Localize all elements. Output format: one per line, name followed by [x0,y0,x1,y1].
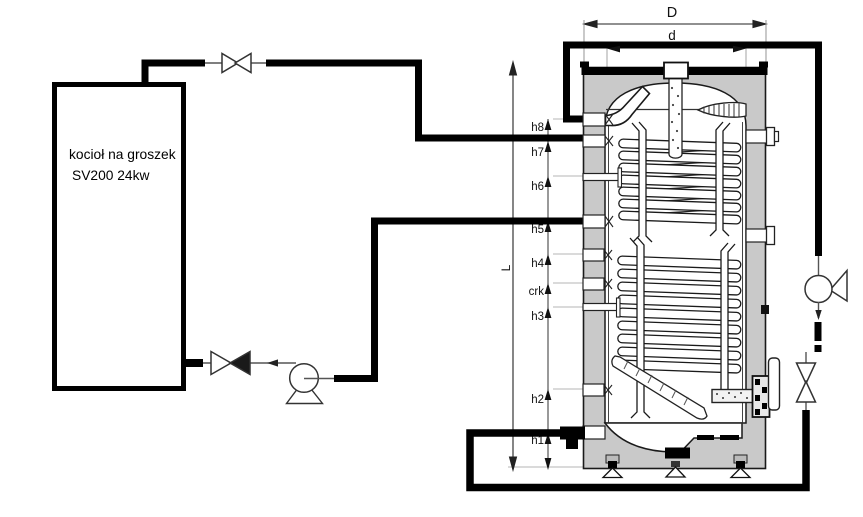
anode rod [669,78,682,158]
bottom dashes [697,435,714,440]
right wall tick [761,305,769,314]
svg-text:h4: h4 [531,258,544,270]
svg-text:h1: h1 [531,435,544,447]
extension lines for h levels [508,119,583,467]
h1 fitting tee [566,439,578,449]
pump P1 outlet line [304,378,336,380]
pipe boiler return stub [186,359,203,367]
valve V1 (open gate valve) [222,54,251,73]
h dimension up arrows [545,119,552,470]
dimension d arrows (over pipe) [607,46,746,53]
pump P2 inlet line [818,256,820,277]
h dimension chain line [547,119,549,468]
h1 black fitting [560,427,585,440]
svg-text:h6: h6 [531,181,544,193]
lower weld seam [606,422,744,424]
thermometer pocket corrugated [698,103,746,118]
svg-text:D: D [667,5,677,21]
dimension D [584,20,766,66]
flow arrow left [267,359,278,366]
valve V2 connecting line [203,362,296,364]
svg-text:L: L [499,264,513,271]
pump P2 outlet arrow [818,302,820,318]
foot right [731,455,750,478]
svg-text:SV200 24kw: SV200 24kw [72,168,150,183]
lower coil riser right [721,243,735,400]
valve V1 connecting line [205,62,266,64]
heater flange cover [769,358,780,410]
svg-text:kocioł na groszek: kocioł na groszek [69,147,176,162]
stub h4 [583,249,612,261]
lower coil [618,256,741,373]
stub h7 [583,135,613,147]
pump P1 (boiler circulation pump) [290,364,319,393]
right stub mid with flange [746,227,775,245]
pipe dashes below pump P2 [815,322,822,352]
stub h2 [583,384,612,396]
stub h1 white gap [583,426,605,439]
vessel wall inner lines [608,122,610,423]
boiler kociol na groszek [55,85,184,389]
upper coil [619,139,741,224]
pump P2 (right circulation pump) [805,271,847,303]
pipe right side down to bottom and back to tank h1 [470,410,806,488]
inner vessel body [605,83,746,423]
valve V3 stem lines [805,352,807,364]
tank corner tabs [580,62,589,68]
svg-text:h3: h3 [531,311,544,323]
stub h5 [583,215,613,228]
svg-text:h2: h2 [531,394,544,406]
pipe tank top loop: h8 up over to right side down [567,45,819,256]
svg-text:d: d [668,28,676,43]
foot middle [666,461,685,477]
upper coil riser right [710,122,730,236]
pipe valve V1 to tank h7 [266,63,586,138]
pipe pump P1 to tank h5 [334,221,586,379]
upper coil riser left [632,122,652,242]
dimension L [510,62,517,470]
valve V3 (vertical valve right side) [797,363,816,402]
right stub upper with flange [746,128,779,146]
valve V2 (check valve half filled) [211,352,250,375]
heater flange bar speckled [712,390,755,403]
cold inlet elbow [606,87,650,126]
stub h8 [583,113,613,126]
heater flange plate [753,376,770,417]
tank top band [582,67,768,75]
lower coil riser left [630,237,650,418]
drain boss [665,448,690,459]
dimension d extension lines [607,44,746,90]
pipe boiler supply left of valve [142,60,206,67]
anode cap [664,63,688,79]
svg-text:h5: h5 [531,224,544,236]
bottom inclined tube [612,356,707,419]
stub crk [583,278,612,290]
svg-text:crk: crk [529,286,545,298]
stub h6 with internal tube [583,168,622,187]
labels h8..h1 crk [529,122,545,447]
top weld seam line [606,109,745,111]
upper coil back turns [622,149,737,216]
pipe boiler top riser [142,63,149,84]
pump P1 stand [287,380,323,404]
tank outer casing [584,68,766,469]
svg-text:h7: h7 [531,147,544,159]
vessel bottom dome [605,423,742,452]
svg-text:h8: h8 [531,122,544,134]
stub h3 with internal tube [583,298,620,317]
foot left [603,455,622,478]
